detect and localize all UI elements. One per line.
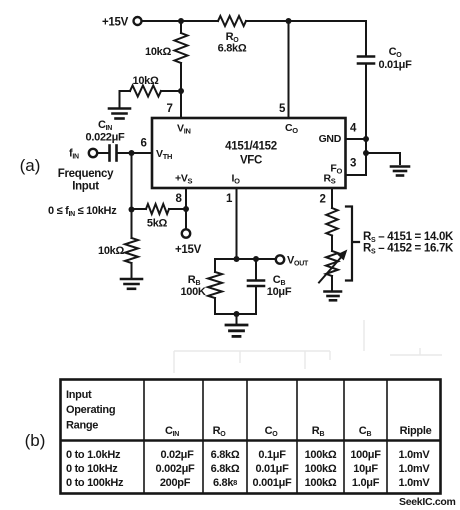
svg-text:10kΩ: 10kΩ (133, 75, 159, 87)
wire pin 5 (288, 21, 290, 118)
node top-right junction (286, 18, 292, 24)
svg-text:2: 2 (319, 194, 325, 206)
wire CO top lead (365, 21, 367, 55)
svg-text:10kΩ: 10kΩ (98, 245, 124, 257)
svg-text:1.0mV: 1.0mV (399, 449, 431, 461)
node top-left junction (178, 18, 184, 24)
svg-text:GND: GND (319, 133, 342, 145)
capacitor CB 10uF (248, 281, 264, 287)
svg-text:3: 3 (350, 158, 356, 170)
svg-text:0.022μF: 0.022μF (86, 132, 125, 144)
svg-text:1.0mV: 1.0mV (399, 463, 431, 475)
node gnd junction (363, 150, 369, 156)
svg-text:(b): (b) (25, 431, 46, 450)
arrowhead RS variable (338, 251, 347, 260)
node pin1 junction (234, 256, 240, 262)
resistor RB 100K (208, 272, 222, 298)
svg-text:10kΩ: 10kΩ (145, 46, 171, 58)
capacitor CO 0.01uF (358, 57, 374, 64)
svg-text:200pF: 200pF (160, 477, 191, 489)
node CB top junction (253, 256, 259, 262)
svg-text:5: 5 (279, 103, 286, 115)
wire RS arrow (319, 255, 344, 283)
wire fIN vertical (131, 153, 133, 238)
svg-text:1.0mV: 1.0mV (399, 477, 431, 489)
resistor R4 10k vertical (125, 238, 138, 263)
node 5k left junction (129, 207, 135, 213)
wire pin 3 stub (346, 174, 366, 176)
resistor R2 10k horizontal (130, 86, 161, 97)
svg-text:(a): (a) (20, 156, 41, 175)
wire R1 bottom lead to node (180, 63, 182, 91)
terminal fIN (89, 149, 97, 157)
wire 5k right lead (169, 208, 186, 210)
svg-text:Operating: Operating (66, 404, 115, 416)
svg-text:0 to 100kHz: 0 to 100kHz (66, 477, 124, 489)
svg-text:0.002μF: 0.002μF (156, 463, 195, 475)
table header divider (61, 439, 441, 442)
wire pin 4 stub (346, 138, 366, 140)
terminal +15V pin8 (182, 229, 190, 237)
svg-text:8: 8 (175, 193, 182, 205)
table outer border (61, 380, 441, 494)
wire CB top lead (255, 259, 257, 280)
svg-text:100kΩ: 100kΩ (305, 477, 337, 489)
ground below RS (325, 292, 342, 301)
table row 1 (66, 449, 430, 461)
wire CIN to pin 6 (118, 152, 152, 154)
svg-text:0.001μF: 0.001μF (253, 477, 292, 489)
ground at R2 (109, 109, 130, 119)
node fIN junction (129, 150, 135, 156)
table column lines (144, 380, 387, 494)
svg-text:1.0μF: 1.0μF (352, 477, 380, 489)
svg-text:5kΩ: 5kΩ (147, 218, 168, 230)
svg-text:0 to 1.0kHz: 0 to 1.0kHz (66, 449, 121, 461)
svg-text:7: 7 (166, 103, 172, 115)
wire RS bottom lead (331, 276, 333, 290)
svg-text:Range: Range (66, 420, 98, 432)
wire top rail left (142, 20, 218, 22)
ghost bleed-through lines (174, 320, 442, 373)
svg-text:4151/4152: 4151/4152 (225, 141, 277, 153)
svg-text:100kΩ: 100kΩ (305, 463, 337, 475)
svg-text:6.8kΩ: 6.8kΩ (218, 43, 247, 55)
table row 3 (66, 477, 430, 489)
wire R4 bottom lead (131, 263, 133, 277)
ground right of IC (391, 167, 409, 176)
svg-text:0.01μF: 0.01μF (255, 463, 289, 475)
svg-text:Input: Input (66, 389, 92, 401)
wire pin 1 (236, 188, 238, 259)
wire top rail right (246, 20, 366, 22)
node pin4 junction (363, 136, 369, 142)
node pin7 junction (178, 88, 184, 94)
ground below R4 (121, 279, 142, 289)
wire CB bottom lead (255, 287, 257, 314)
svg-text:1: 1 (226, 193, 233, 205)
op-amp IC U1 4151/4152 VFC box (152, 118, 346, 188)
svg-text:+15V: +15V (175, 244, 202, 256)
svg-text:0.01μF: 0.01μF (378, 59, 412, 71)
svg-text:10μF: 10μF (267, 286, 292, 298)
svg-text:4: 4 (350, 123, 357, 135)
bracket RS values (346, 207, 359, 281)
wire R2 left lead (120, 91, 131, 107)
svg-text:0.1μF: 0.1μF (258, 449, 286, 461)
svg-text:RS – 4152 = 16.7K: RS – 4152 = 16.7K (363, 243, 454, 256)
wire Vout rail (215, 258, 276, 260)
svg-text:VFC: VFC (240, 155, 262, 167)
capacitor CIN 0.022uF (110, 146, 117, 161)
resistor RS variable (326, 251, 338, 276)
svg-text:0 to 10kHz: 0 to 10kHz (66, 463, 118, 475)
wire RB bottom lead (214, 298, 216, 314)
resistor RS fixed (326, 208, 337, 236)
svg-text:100kΩ: 100kΩ (305, 449, 337, 461)
wire pin 2 (331, 188, 333, 208)
svg-text:SeekIC.com: SeekIC.com (399, 496, 456, 508)
resistor RO 6.8k (218, 16, 246, 26)
wire pin 7 (180, 91, 182, 118)
node pin8 junction (183, 206, 189, 212)
svg-text:100μF: 100μF (350, 449, 381, 461)
svg-text:Input: Input (72, 181, 99, 193)
svg-text:0 ≤ fIN ≤ 10kHz: 0 ≤ fIN ≤ 10kHz (48, 205, 117, 218)
resistor R3 5k (146, 204, 169, 214)
wire RS middle (331, 236, 333, 252)
svg-text:+15V: +15V (102, 17, 129, 29)
resistor R1 10k vertical (175, 33, 188, 63)
wire RB top lead (214, 259, 216, 272)
svg-text:Frequency: Frequency (58, 168, 114, 180)
wire R2 right lead (161, 90, 181, 92)
table row 2 (66, 463, 430, 475)
svg-text:10μF: 10μF (353, 463, 378, 475)
wire gnd branch (366, 153, 400, 164)
svg-text:0.02μF: 0.02μF (160, 449, 194, 461)
terminal VOUT (276, 255, 284, 263)
wire fIN to CIN (98, 152, 109, 154)
wire bottom rail RB-CB (215, 313, 256, 315)
wire 5k left lead (132, 208, 147, 210)
wire pin 8 (185, 188, 187, 229)
svg-text:6.8kΩ: 6.8kΩ (211, 463, 240, 475)
svg-text:6: 6 (140, 138, 146, 150)
ground below CB (226, 325, 247, 336)
node gnd bottom junction (234, 311, 240, 317)
svg-text:6.8kΩ: 6.8kΩ (211, 449, 240, 461)
wire CO bottom lead to pin4 node (365, 65, 367, 175)
svg-text:100K: 100K (180, 286, 205, 298)
wire R1 top lead (180, 21, 182, 33)
terminal +15V top (134, 17, 142, 25)
wire gnd stem (236, 314, 238, 323)
svg-text:Ripple: Ripple (400, 425, 432, 437)
